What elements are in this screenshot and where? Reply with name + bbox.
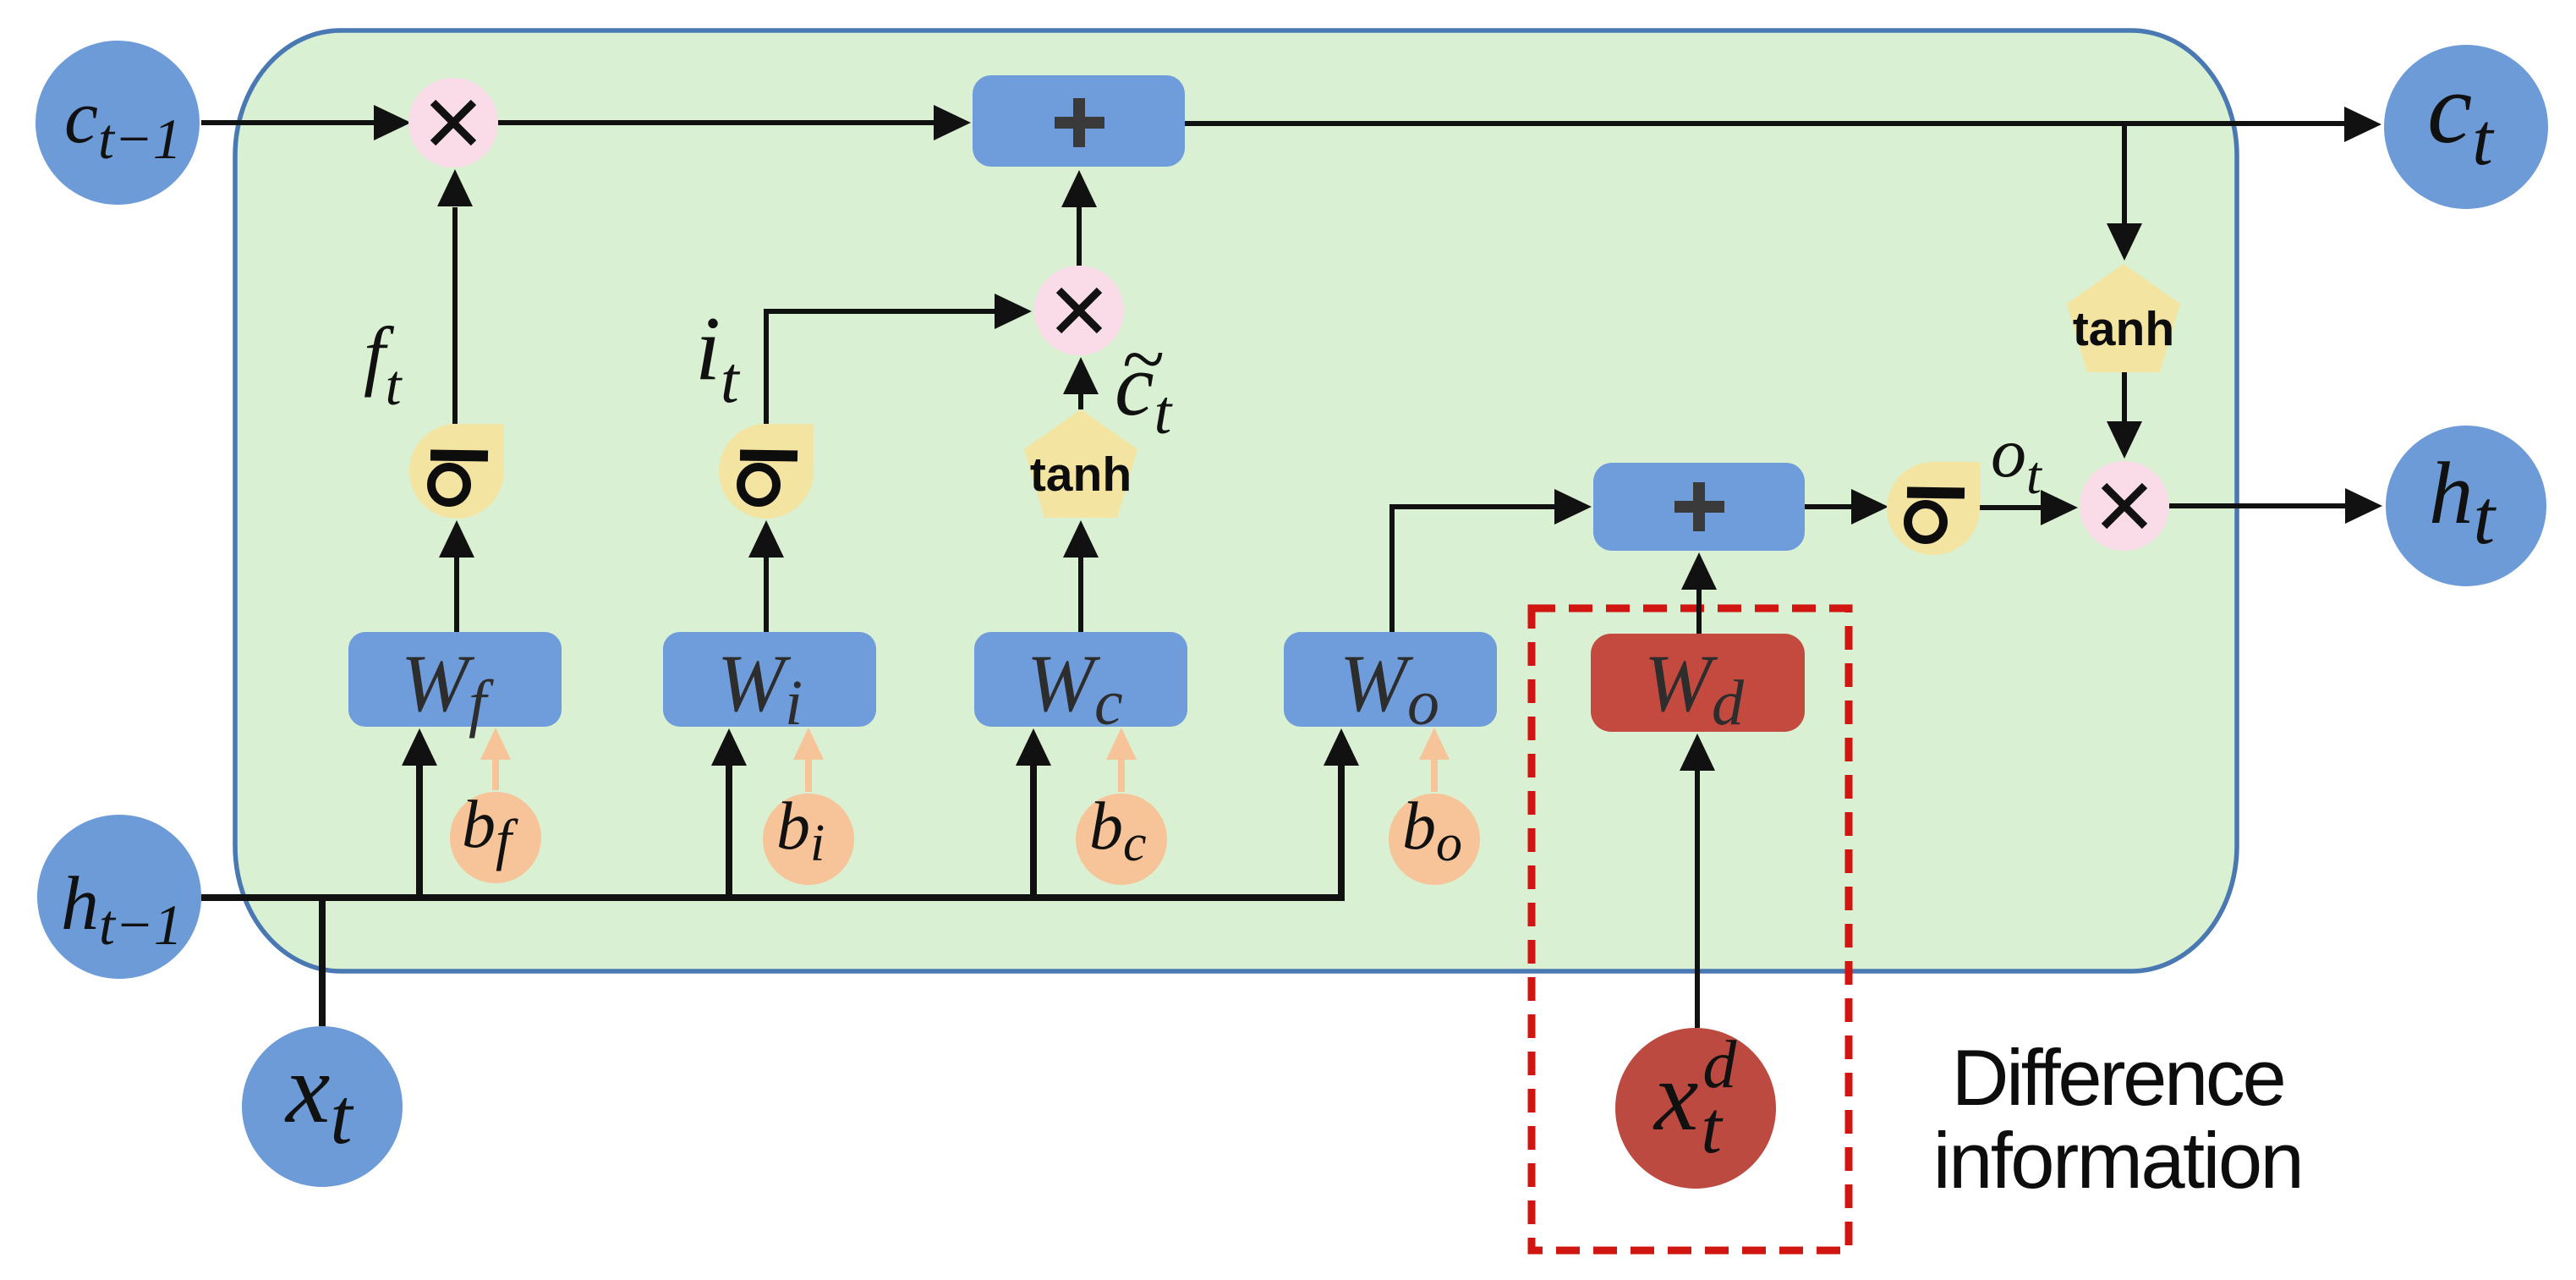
wire x(t) vertical into h-line xyxy=(319,894,326,1026)
label c~(t) xyxy=(1115,316,1174,448)
weight Wf xyxy=(348,632,562,739)
wire Wf to sigma f xyxy=(439,520,474,632)
bias bi xyxy=(763,789,854,885)
weight Wi xyxy=(663,632,876,739)
svg-text:tanh: tanh xyxy=(2073,302,2174,356)
multiply node 3 (output gate product) xyxy=(2080,461,2169,551)
node h(t-1) input circle xyxy=(37,815,201,979)
bias arrow bo xyxy=(1419,728,1450,792)
sigma f activation xyxy=(409,424,504,519)
wire right tanh to right multiply xyxy=(2107,372,2142,459)
wire mid tanh to mid multiply xyxy=(1063,357,1099,409)
sigma i activation xyxy=(719,424,814,519)
wire plus node to c(t) long line xyxy=(1185,107,2381,142)
node c(t) output circle xyxy=(2384,45,2548,209)
tanh activation (candidate) xyxy=(1024,409,1137,518)
wire plus2 to sigma o xyxy=(1805,489,1888,525)
wire Wd to plus2 xyxy=(1681,552,1717,634)
svg-text:tanh: tanh xyxy=(1030,448,1132,502)
bias bf xyxy=(450,788,541,883)
node c(t-1) input circle xyxy=(36,41,200,205)
label Difference information xyxy=(1933,1033,2302,1205)
wire x(t)d to Wd xyxy=(1680,733,1715,1028)
svg-text:information: information xyxy=(1933,1116,2302,1205)
difference information dashed box xyxy=(1532,608,1849,1250)
wire h(t-1) main horizontal line with turn up into Wo xyxy=(201,728,1359,898)
bias bc xyxy=(1076,789,1167,885)
wire Wi to sigma i xyxy=(748,520,784,632)
node x(t)d difference input circle xyxy=(1615,1028,1776,1189)
weight Wd (difference weight) xyxy=(1591,634,1805,739)
bias arrow bf xyxy=(480,728,511,790)
bias arrow bi xyxy=(793,728,824,792)
node x(t) input circle xyxy=(242,1026,403,1187)
wire Wo up and right into plus2 xyxy=(1392,489,1592,632)
LSTM cell body (green rounded box) xyxy=(235,30,2237,971)
weight Wo xyxy=(1284,632,1497,739)
wire Wc to mid tanh xyxy=(1063,520,1099,632)
svg-text:Difference: Difference xyxy=(1952,1033,2284,1122)
wire sigma f up to multiply1 xyxy=(437,169,473,424)
wire branch up into Wf xyxy=(402,728,437,898)
wire branch up into Wi xyxy=(711,728,747,898)
bias arrow bc xyxy=(1106,728,1137,792)
plus node 1 (cell state sum) xyxy=(973,75,1185,167)
multiply node 1 (forget gate product) xyxy=(408,78,498,168)
wire sigma o to right multiply xyxy=(1980,490,2078,525)
weight Wc xyxy=(974,632,1187,739)
node h(t) output circle xyxy=(2386,426,2546,586)
multiply node 2 (input gate product) xyxy=(1034,266,1124,355)
wire mid multiply up to plus1 xyxy=(1061,170,1097,266)
tanh activation (output) xyxy=(2067,264,2180,372)
svg-text:~: ~ xyxy=(1121,316,1164,402)
wire branch up into Wc xyxy=(1016,728,1051,898)
sigma o activation xyxy=(1887,462,1980,555)
plus node 2 (output sum) xyxy=(1593,463,1805,551)
wire sigma i up and right into mid multiply xyxy=(766,294,1032,424)
wire branch down to right tanh xyxy=(2107,124,2142,261)
wire multiply node to plus node xyxy=(498,105,971,140)
bias bo xyxy=(1389,789,1480,885)
wire c(t-1) into multiply node xyxy=(201,105,411,140)
wire right multiply to h(t) xyxy=(2169,488,2382,524)
